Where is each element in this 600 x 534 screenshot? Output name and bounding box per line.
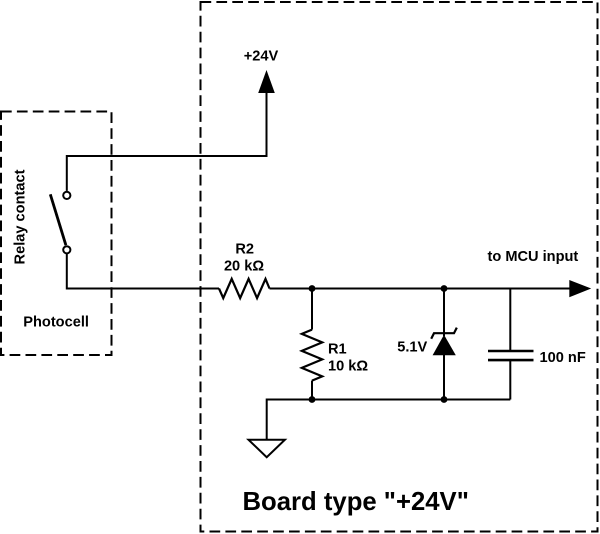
svg-text:20 kΩ: 20 kΩ: [224, 258, 264, 274]
svg-text:5.1V: 5.1V: [397, 340, 427, 356]
svg-text:R1: R1: [328, 342, 347, 358]
switch SW1 top contact circle: [63, 192, 70, 199]
junction node R1 bottom: [309, 396, 316, 403]
capacitor C1 top plate: [488, 350, 534, 353]
svg-text:to MCU input: to MCU input: [488, 249, 579, 265]
wire from switch to resistor R2: [67, 254, 219, 289]
svg-text:Board type "+24V": Board type "+24V": [243, 488, 469, 516]
power arrow +24V: [258, 70, 275, 93]
svg-text:R2: R2: [235, 241, 254, 257]
svg-text:100 nF: 100 nF: [540, 350, 586, 366]
svg-text:+24V: +24V: [244, 48, 279, 64]
wire to ground symbol: [266, 399, 268, 440]
wire from +24V arrow down and left to switch: [67, 92, 267, 191]
resistor R1: [302, 330, 322, 381]
svg-text:Photocell: Photocell: [23, 314, 89, 330]
output arrow head: [569, 280, 591, 297]
ground bus wire: [267, 399, 511, 401]
svg-text:10 kΩ: 10 kΩ: [328, 359, 368, 375]
svg-text:Relay contact: Relay contact: [12, 169, 28, 264]
wire from capacitor C1 bottom: [509, 360, 511, 399]
wire from zener anode down: [443, 355, 445, 400]
ground symbol: [249, 440, 285, 458]
wire to capacitor C1 top: [509, 289, 511, 352]
zener diode D1 cathode bar: [431, 328, 457, 339]
switch SW1 lever: [50, 194, 66, 245]
wire to zener D1 cathode: [443, 289, 445, 337]
switch SW1 bottom contact circle: [63, 246, 70, 253]
board dashed outline box: [201, 2, 598, 532]
resistor R2: [219, 279, 270, 298]
junction node R1 top: [309, 285, 316, 292]
wire main node from R2 to output arrow: [270, 288, 570, 290]
wire from R1 bottom: [311, 381, 313, 400]
relay/photocell dashed outline box: [1, 112, 112, 356]
junction node D1 bottom: [441, 396, 448, 403]
wire to R1 top: [311, 289, 313, 330]
capacitor C1 bottom plate: [488, 359, 534, 362]
zener diode D1 triangle: [433, 335, 456, 356]
junction node D1 top: [441, 285, 448, 292]
